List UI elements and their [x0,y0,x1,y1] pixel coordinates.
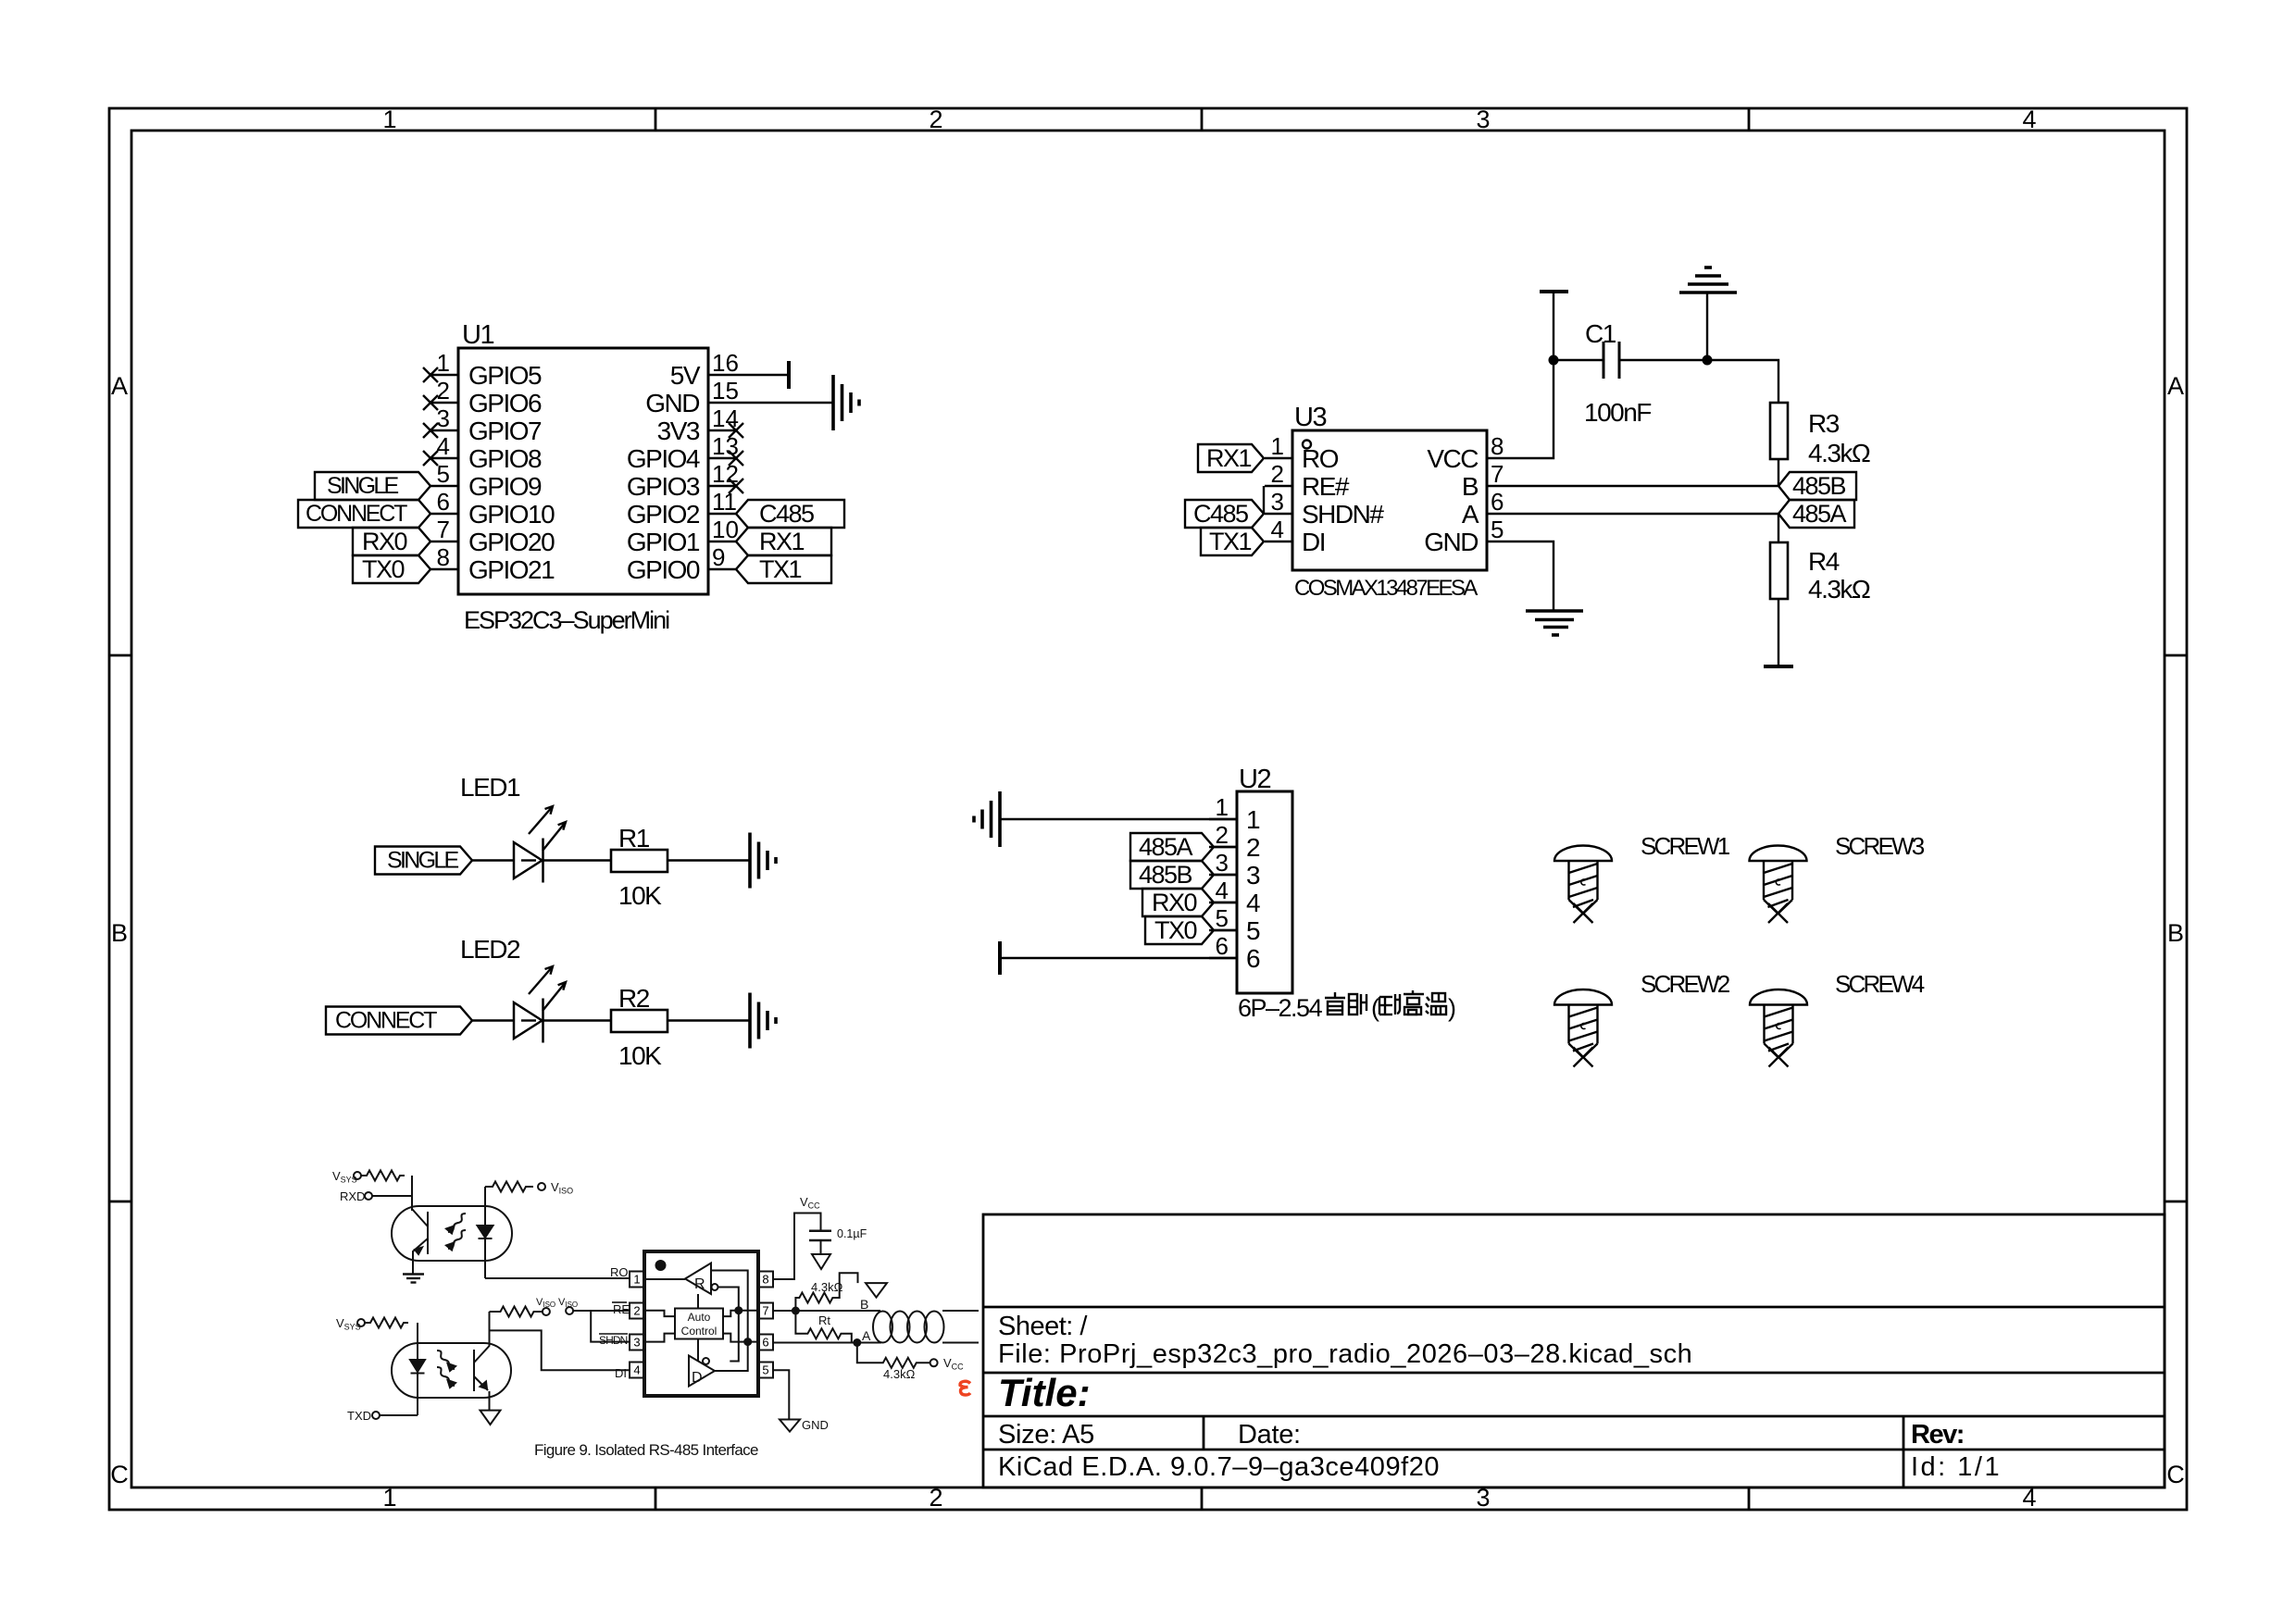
svg-text:RXD: RXD [340,1189,365,1203]
svg-text:3V3: 3V3 [657,417,700,445]
svg-text:7: 7 [437,516,450,543]
figure receiver R triangle [685,1263,718,1295]
svg-text:9: 9 [712,543,725,571]
resistor R4 4.3k [1770,542,1788,599]
svg-text:GPIO6: GPIO6 [468,389,542,417]
svg-text:11: 11 [712,488,737,516]
figure text labels [332,1169,964,1459]
svg-text:GPIO21: GPIO21 [468,555,555,584]
RS-485 transceiver U3 COSMAX13487EESA [1265,403,1515,601]
svg-text:4.3kΩ: 4.3kΩ [1808,575,1870,604]
figure IC pin1 dot [655,1260,667,1271]
svg-text:C485: C485 [759,500,814,528]
wire CONNECT to LED2 [472,1019,514,1021]
svg-text:0.1µF: 0.1µF [837,1227,867,1240]
net label SINGLE (U1 pin5) [315,472,430,500]
net label TX1 (U3 pin4) [1201,528,1264,555]
figure orange logo [960,1381,970,1395]
svg-text:4: 4 [1246,889,1260,917]
svg-text:GPIO1: GPIO1 [627,528,700,556]
svg-text:5: 5 [1246,916,1260,945]
svg-text:RO: RO [610,1265,629,1279]
screw SCREW4 [1750,989,1807,1067]
svg-text:2: 2 [929,106,942,133]
net label C485 (U1 pin11) [736,500,844,528]
svg-text:A: A [1462,500,1479,529]
figure pin6 A wire [773,1342,881,1344]
wire power bar to U2 pin6 [1000,957,1237,959]
ground symbol at U2 pin1 (mirrored) [974,791,1000,847]
svg-text:R3: R3 [1808,409,1840,438]
figure opto2 phototransistor [474,1312,501,1425]
resistor R1 10K [611,850,668,872]
net label 485A [1778,500,1854,528]
svg-text:TX0: TX0 [1154,916,1197,944]
svg-text:ESP32C3–SuperMini: ESP32C3–SuperMini [464,606,669,634]
LED LED2 [460,935,566,1043]
U1 pin names [468,361,555,584]
svg-text:4: 4 [437,432,450,460]
svg-text:7: 7 [1491,460,1504,488]
net label SINGLE (LED1 row) [375,847,472,875]
U3 decorative circle above RO [1303,441,1311,449]
U1 no-connect X marks pins 14,13,12 [729,423,743,493]
svg-text:TX1: TX1 [759,555,802,583]
svg-text:RX0: RX0 [362,528,407,555]
figure opto1 ground [403,1275,424,1283]
figure junction dots internal [734,1306,742,1314]
svg-text:U2: U2 [1239,765,1270,794]
svg-text:B: B [2167,919,2184,947]
svg-text:SINGLE: SINGLE [327,473,399,499]
svg-text:B: B [860,1297,868,1312]
figure IC pin boxes left [630,1272,644,1378]
svg-text:5: 5 [437,460,450,488]
figure wire Vsys node down [411,1176,413,1211]
svg-text:485B: 485B [1139,861,1192,889]
MCU module U1 ESP32C3-SuperMini [423,320,743,634]
earth ground symbol (flipped) [1679,268,1737,292]
LED LED1 [460,773,566,883]
svg-text:GPIO7: GPIO7 [468,417,542,445]
svg-text:5V: 5V [670,361,701,390]
resistor R2 10K [611,1010,668,1032]
svg-text:10K: 10K [618,881,662,910]
junction at VCC rail left [1549,355,1559,366]
figure DI wire [490,1330,630,1370]
svg-text:4: 4 [633,1363,640,1377]
wire VCC rail through C1 to R3 [1554,359,1603,361]
net label RX1 (U1 pin10) [736,528,831,555]
svg-text:SCREW1: SCREW1 [1641,832,1730,860]
svg-text:14: 14 [712,404,739,432]
ground symbol at U3 pin5 [1526,611,1583,635]
wire R4 to GND bar [1778,599,1779,666]
net label RX1 (U3 pin1) [1198,444,1264,472]
svg-text:TXD: TXD [347,1409,371,1423]
svg-text:Date:: Date: [1238,1420,1301,1450]
figure IC body [644,1251,758,1396]
screw SCREW1 [1554,846,1612,924]
svg-text:6: 6 [1216,932,1229,960]
svg-text:GPIO9: GPIO9 [468,472,542,501]
figure opto1 light arrows [446,1213,466,1251]
svg-text:GPIO0: GPIO0 [627,555,700,584]
svg-text:Rt: Rt [818,1313,830,1327]
svg-text:RE: RE [613,1302,630,1316]
svg-text:485A: 485A [1792,500,1847,528]
figure twisted pair [873,1311,979,1343]
U3 pins [1265,458,1515,541]
figure pin5 to gnd [773,1370,800,1431]
wire U1 pin15 to GND [736,402,832,404]
svg-text:RO: RO [1302,444,1339,473]
svg-text:RX0: RX0 [1152,889,1197,916]
power symbol bar at U2 pin6 [998,941,1002,975]
svg-text:2: 2 [633,1304,640,1318]
svg-text:GPIO4: GPIO4 [627,444,700,473]
U1 pin numbers [437,349,450,571]
svg-text:SCREW2: SCREW2 [1641,970,1730,998]
figure Rt resistor [795,1311,861,1347]
svg-text:6P–2.54: 6P–2.54 [1238,994,1323,1022]
svg-text:GPIO10: GPIO10 [468,500,555,529]
net label TX0 (U2 pin5) [1145,916,1214,944]
svg-text:1: 1 [382,106,396,133]
wire SINGLE to LED1 [472,859,514,861]
svg-text:1: 1 [1271,432,1284,460]
power symbol 5V bar [787,361,791,389]
svg-text:16: 16 [712,349,739,377]
svg-text:6: 6 [437,488,450,516]
svg-text:2: 2 [1246,833,1260,862]
svg-text:2: 2 [437,377,450,404]
svg-text:B: B [111,919,128,947]
screw SCREW2 [1554,989,1612,1067]
svg-text:SINGLE: SINGLE [387,848,459,874]
figure driver D triangle [689,1356,715,1387]
power symbol GND bar under R4 [1764,665,1793,668]
svg-text:VCC: VCC [1427,444,1479,473]
svg-text:R: R [694,1276,705,1292]
svg-text:R4: R4 [1808,547,1840,576]
figure Viso terminal for RE/SHDN [566,1307,630,1342]
svg-text:Title:: Title: [998,1371,1091,1414]
svg-text:LED1: LED1 [460,773,520,802]
net label C485 (U3 pin3) [1185,500,1264,528]
svg-text:4: 4 [2022,106,2036,133]
svg-text:Figure 9. Isolated RS-485 Inte: Figure 9. Isolated RS-485 Interface [534,1441,758,1459]
svg-text:GND: GND [802,1418,829,1432]
figure opto1 phototransistor [412,1206,428,1274]
svg-text:5: 5 [1216,904,1229,932]
svg-text:DI: DI [1302,528,1325,556]
svg-text:C1: C1 [1585,319,1616,348]
svg-text:D: D [692,1370,703,1386]
power symbol VCC bar [1540,290,1568,293]
figure optocoupler bottom body [392,1343,511,1398]
svg-text:RX1: RX1 [759,528,805,555]
figure pin7 B wire [773,1310,880,1312]
svg-text:8: 8 [762,1273,768,1287]
svg-text:4.3kΩ: 4.3kΩ [811,1280,843,1294]
svg-text:CONNECT: CONNECT [335,1008,437,1034]
figure optocoupler top body [392,1206,512,1261]
svg-text:R1: R1 [618,824,650,853]
wire U1 pin16 to 5V power [736,374,788,376]
svg-text:SCREW3: SCREW3 [1835,832,1925,860]
net label RX0 (U2 pin4) [1142,889,1214,916]
svg-text:3: 3 [1246,861,1260,890]
svg-text:3: 3 [1216,849,1229,877]
svg-text:5: 5 [762,1363,768,1377]
svg-text:4.3kΩ: 4.3kΩ [883,1367,916,1381]
screw SCREW3 [1750,846,1807,924]
svg-text:C: C [110,1461,129,1488]
svg-text:1: 1 [1246,805,1260,834]
svg-text:1: 1 [633,1273,640,1287]
wire LED1 to R1 [543,859,612,861]
U1 no-connect X marks pins 1-4 [423,367,438,466]
svg-text:1: 1 [382,1484,396,1512]
net label CONNECT (U1 pin6) [298,500,430,528]
svg-text:Id: 1/1: Id: 1/1 [1911,1452,2002,1482]
net label CONNECT (LED2 row) [326,1007,472,1035]
svg-text:Auto: Auto [688,1311,711,1324]
svg-text:U3: U3 [1294,403,1326,432]
figure Vsys terminal (top) [354,1171,405,1181]
resistor R3 4.3k [1770,403,1788,459]
svg-text:485A: 485A [1139,833,1193,861]
wire ground to U2 pin1 [1000,818,1237,820]
svg-text:3: 3 [1476,106,1490,133]
svg-text:GPIO5: GPIO5 [468,361,542,390]
svg-text:A: A [111,372,128,400]
wire R1 to ground [668,859,749,861]
svg-text:C: C [2166,1461,2185,1488]
figure Vsys terminal (bottom) [357,1318,418,1344]
figure TXD terminal [372,1412,418,1419]
svg-text:1: 1 [437,349,450,377]
figure opto1 LED [478,1187,493,1278]
svg-text:4: 4 [1271,516,1284,543]
svg-text:DI: DI [615,1366,627,1380]
svg-text:B: B [1462,472,1479,501]
svg-text:2: 2 [1271,460,1284,488]
wire U3 pin6 A to 485A [1515,513,1778,515]
svg-text:SHDN: SHDN [599,1334,628,1347]
svg-text:TX0: TX0 [362,555,405,583]
wire U3 pin5 GND down to ground [1515,541,1554,610]
svg-text:A: A [2167,372,2184,400]
svg-text:GPIO2: GPIO2 [627,500,700,529]
wire to earth ground [1706,292,1708,360]
net label 485A (U2 pin2) [1130,833,1214,861]
svg-text:3: 3 [1271,488,1284,516]
ground symbol LED2 row [750,993,776,1049]
svg-text:): ) [1448,994,1455,1022]
svg-text:7: 7 [762,1304,768,1318]
figure IC pin boxes right [758,1272,773,1378]
svg-text:GND: GND [1424,528,1478,556]
wire R3 to 485B node [1778,459,1779,486]
svg-text:C485: C485 [1193,500,1248,528]
svg-text:SCREW4: SCREW4 [1835,970,1925,998]
ground symbol at U1 pin15 [833,375,859,430]
figure auto control box [675,1309,723,1339]
svg-text:KiCad E.D.A. 9.0.7–9–ga3ce409f: KiCad E.D.A. 9.0.7–9–ga3ce409f20 [998,1452,1440,1482]
svg-text:GPIO20: GPIO20 [468,528,555,556]
U3 pin names [1302,444,1384,556]
svg-text:RX1: RX1 [1206,444,1252,472]
svg-text:SHDN#: SHDN# [1302,500,1384,529]
svg-text:485B: 485B [1792,472,1846,500]
svg-text:10: 10 [712,516,739,543]
figure RXD terminal [365,1192,412,1200]
svg-text:2: 2 [1216,821,1229,849]
svg-text:Size: A5: Size: A5 [998,1420,1094,1450]
wire R2 to ground [668,1019,749,1021]
svg-text:GPIO3: GPIO3 [627,472,700,501]
svg-text:GND: GND [645,389,699,417]
svg-text:RE#: RE# [1302,472,1350,501]
svg-text:U1: U1 [462,320,493,350]
U1 right pins 16-9 [708,375,736,569]
figure A 4.3k pull-up to Vcc [857,1343,938,1368]
ground symbol LED1 row [750,833,776,889]
svg-text:1: 1 [1216,793,1229,821]
figure 4.3k B pulldown + iso gnd [792,1273,887,1314]
svg-text:3: 3 [633,1336,640,1350]
svg-text:10K: 10K [618,1041,662,1070]
svg-text:File: ProPrj_esp32c3_pro_radio: File: ProPrj_esp32c3_pro_radio_2026–03–2… [998,1339,1692,1369]
wire U3 pin8 VCC up to power bar [1515,292,1554,458]
figure Viso pull-up (bottom) [490,1307,550,1317]
svg-text:4: 4 [1216,877,1229,904]
figure Vcc + 0.1uF cap + iso gnd [773,1213,831,1280]
U2 pin numbers [1216,793,1229,960]
svg-text:Sheet: /: Sheet: / [998,1312,1088,1341]
svg-text:8: 8 [1491,432,1504,460]
junction at VCC rail right [1703,355,1713,366]
svg-text:15: 15 [712,377,739,404]
net label TX0 (U1 pin8) [353,555,430,583]
net label 485B (U2 pin3) [1130,861,1214,889]
net label RX0 (U1 pin7) [353,528,430,555]
svg-text:2: 2 [929,1484,942,1512]
svg-text:A: A [862,1328,871,1343]
U3 pin numbers [1271,432,1284,543]
svg-text:100nF: 100nF [1584,398,1651,427]
title block [983,1214,2165,1487]
U2 value 6P-2.54 (CJK) [1238,990,1455,1022]
wire tying U3 pin2 RE# down to pin3 node [1263,486,1265,514]
figure IC internal wires [644,1271,758,1372]
svg-text:Control: Control [681,1325,717,1338]
svg-text:12: 12 [712,460,739,488]
svg-text:COSMAX13487EESA: COSMAX13487EESA [1294,576,1478,601]
connector U2 6P-2.54 [1209,765,1292,993]
svg-text:8: 8 [437,543,450,571]
svg-text:TX1: TX1 [1209,528,1252,555]
svg-text:4.3kΩ: 4.3kΩ [1808,439,1870,467]
wire 485A node to R4 [1778,514,1779,542]
svg-text:LED2: LED2 [460,935,520,964]
svg-text:6: 6 [1491,488,1504,516]
U1 left pins 1-8 [430,375,458,569]
capacitor C1 100nF [1603,342,1619,379]
svg-text:13: 13 [712,432,739,460]
wire LED2 to R2 [543,1019,612,1021]
figure opto2 light arrows [437,1350,455,1388]
svg-text:Rev:: Rev: [1911,1420,1964,1450]
figure opto2 LED [410,1343,425,1415]
svg-text:R2: R2 [618,984,650,1013]
svg-text:5: 5 [1491,516,1504,543]
net label 485B [1778,472,1856,500]
net label TX1 (U1 pin9) [736,555,831,583]
wire U3 pin7 B to 485B [1515,485,1778,487]
U2 pin names [1246,805,1260,973]
svg-text:6: 6 [762,1336,768,1350]
svg-text:6: 6 [1246,944,1260,973]
figure Viso pull-up (top) [485,1182,545,1192]
svg-text:GPIO8: GPIO8 [468,444,542,473]
figure RO wire [485,1277,630,1279]
svg-text:3: 3 [437,404,450,432]
svg-text:CONNECT: CONNECT [306,501,407,527]
